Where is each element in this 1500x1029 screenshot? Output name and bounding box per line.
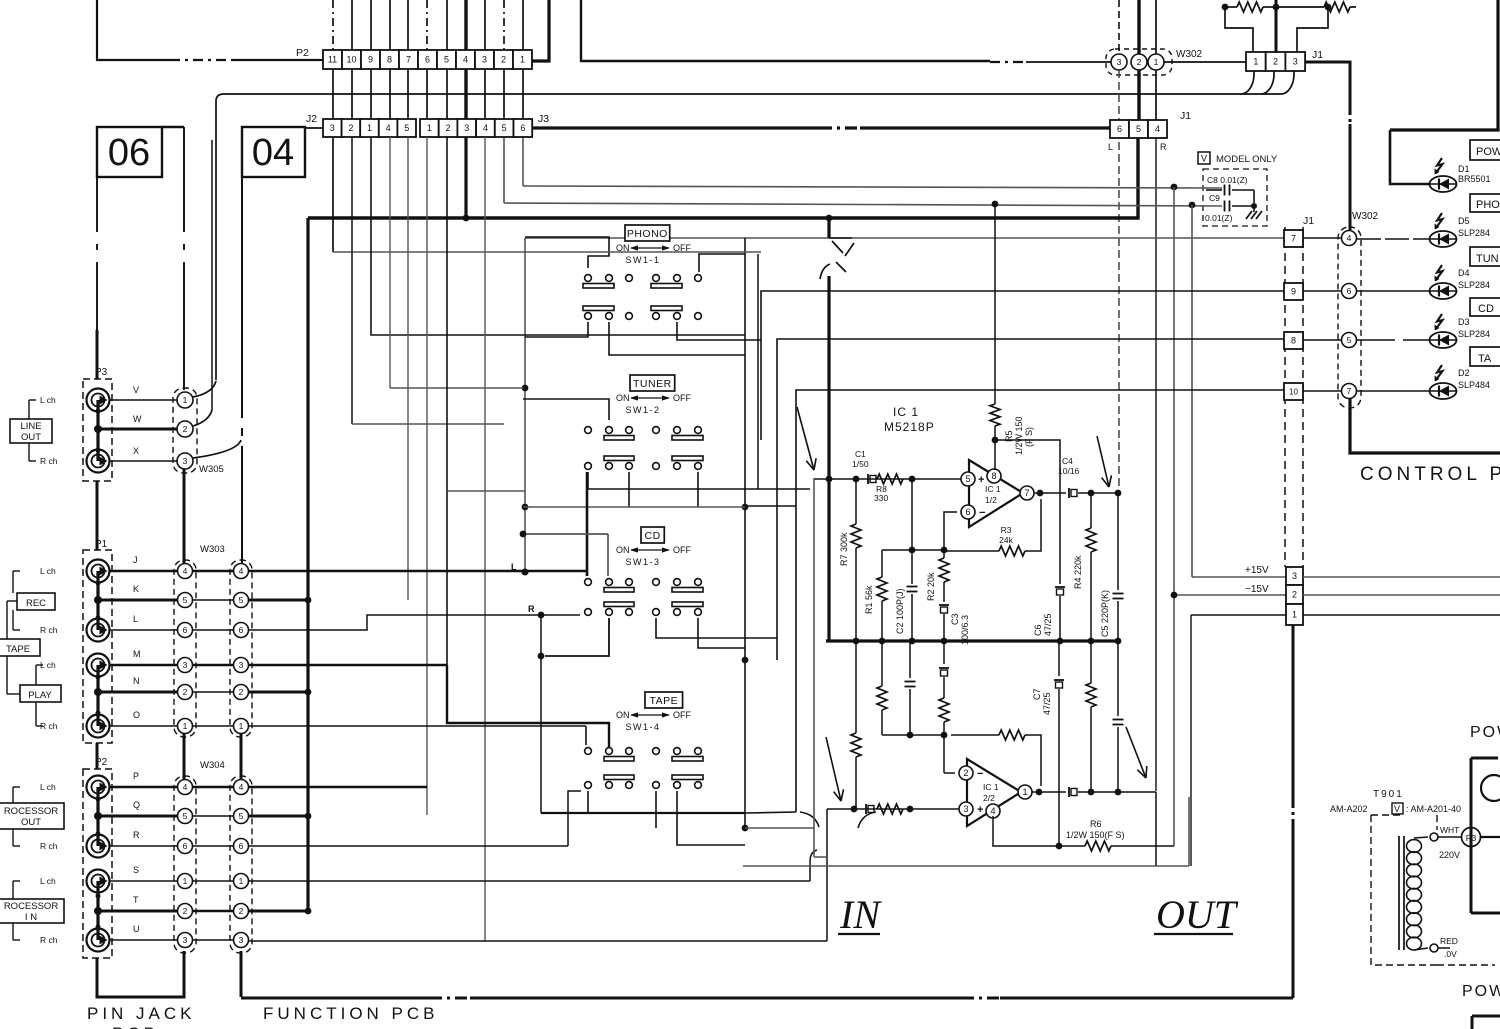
svg-text:C5 220P(K): C5 220P(K)	[1100, 590, 1110, 637]
arrow at C4 output	[1097, 436, 1109, 487]
wire W302-1 down	[1155, 0, 1157, 54]
svg-text:6: 6	[183, 841, 188, 851]
junction dots y218	[463, 215, 470, 222]
svg-text:D4: D4	[1458, 268, 1470, 278]
wire P bold	[249, 786, 427, 789]
connector W302 top dashed outline	[1106, 49, 1172, 75]
svg-text:I N: I N	[25, 912, 37, 923]
svg-text:M: M	[133, 649, 141, 659]
bold stem above P3	[96, 330, 99, 379]
svg-text:V: V	[1394, 804, 1400, 814]
svg-text:J: J	[133, 555, 138, 565]
svg-text:R6: R6	[1090, 819, 1102, 829]
pin jack PROCESSOR OUT Rch	[87, 835, 110, 858]
PIN JACK PCB bottom U	[97, 951, 184, 997]
pin jack PROCESSOR OUT Lch	[87, 776, 110, 799]
resistor R1	[881, 550, 883, 577]
svg-text:L: L	[1108, 142, 1113, 152]
wire TAPE to J1-10 y391	[796, 390, 1284, 812]
SW1-2 lower wires	[588, 472, 810, 489]
svg-text:−: −	[979, 507, 985, 519]
op-amp IC1 1/2 triangle	[969, 460, 1023, 527]
REC label box	[17, 593, 55, 610]
op-amp IC1 2/2	[967, 759, 1021, 826]
wire pin6 to R2 node	[944, 512, 957, 550]
wire U thin	[249, 940, 827, 942]
W304 col1 circles	[178, 780, 193, 795]
svg-text:W304: W304	[200, 760, 225, 771]
curve W305-2 up	[193, 410, 212, 426]
switch SW1-4 row2	[585, 782, 592, 789]
W304 col2 circles	[234, 780, 249, 795]
connector W302-5	[1342, 333, 1357, 348]
svg-text:FUNCTION PCB: FUNCTION PCB	[263, 1004, 439, 1023]
big O in power box	[1481, 775, 1500, 801]
W303 col1 dashed box	[174, 560, 196, 737]
wire O	[249, 725, 586, 727]
switch SW1-2 row1	[585, 427, 592, 434]
wire y506 link	[745, 505, 796, 507]
wires W303 col1-col2	[193, 570, 233, 573]
svg-text:2: 2	[183, 687, 188, 697]
wires J1 to W302 right	[1303, 237, 1341, 239]
wire W302-3 down (dashed)	[1118, 0, 1120, 54]
P2 dashed box lower	[83, 769, 112, 958]
arrow into IC input	[797, 407, 814, 470]
svg-text:OUT: OUT	[21, 817, 41, 828]
svg-text:WHT: WHT	[1440, 825, 1459, 835]
W304 col1 dashed box	[174, 776, 196, 953]
svg-text:1: 1	[239, 876, 244, 886]
svg-text:5: 5	[1347, 335, 1352, 345]
SW1-1 lower wires	[525, 322, 588, 337]
svg-text:2: 2	[239, 687, 244, 697]
svg-text:OFF: OFF	[673, 710, 691, 720]
svg-text:LINE: LINE	[20, 421, 41, 432]
pin jack LINE OUT Rch	[87, 450, 110, 473]
svg-text:3: 3	[183, 456, 188, 466]
svg-text:−15V: −15V	[1245, 584, 1269, 595]
LED D5	[1430, 231, 1457, 247]
svg-text:PLAY: PLAY	[28, 690, 52, 701]
label box CD	[641, 527, 664, 543]
bold rail P1 to P2	[96, 743, 99, 769]
wire row y507	[523, 506, 745, 508]
svg-text:L ch: L ch	[40, 395, 56, 405]
switch SW1-1 row1	[583, 284, 614, 289]
svg-text:1: 1	[1154, 57, 1159, 67]
svg-text:ROCESSOR: ROCESSOR	[4, 806, 59, 817]
svg-text:5: 5	[404, 123, 409, 133]
wire TUNER to J1-9 y291	[761, 291, 1284, 440]
SW1-3 feed wires	[656, 618, 777, 638]
pin jack TAPE PLAY Rch	[87, 715, 110, 738]
rail x184 W303-W304	[183, 734, 186, 787]
svg-text:0.01(Z): 0.01(Z)	[1205, 213, 1233, 223]
label box TUNER right	[1470, 247, 1500, 266]
svg-text:2: 2	[446, 123, 451, 133]
tape bracket link	[6, 601, 8, 639]
svg-text:SW1-3: SW1-3	[625, 557, 660, 567]
svg-text:1/2: 1/2	[985, 495, 997, 505]
svg-text:CD: CD	[645, 530, 661, 542]
svg-text:3: 3	[239, 660, 244, 670]
transformer dashed box	[1371, 815, 1437, 965]
capacitor C4b	[1068, 787, 1070, 797]
svg-text:TUNER: TUNER	[633, 378, 672, 390]
svg-text:1: 1	[1292, 610, 1297, 620]
switch SW1-4 row1	[585, 748, 592, 755]
label box TAPE	[645, 692, 683, 708]
svg-text:R: R	[528, 604, 535, 614]
svg-text:3: 3	[183, 660, 188, 670]
resistor R7b	[855, 641, 857, 733]
wire W302-7 to D2	[1357, 390, 1429, 392]
W303 col2 circles	[234, 564, 249, 579]
svg-text:C4: C4	[1062, 456, 1073, 466]
tape brackets	[12, 571, 14, 593]
label box TUNER	[630, 375, 675, 391]
connector J3 pin header	[420, 119, 439, 137]
svg-text:10: 10	[346, 55, 356, 65]
resistor R6	[1056, 843, 1063, 850]
svg-text:3: 3	[963, 804, 968, 814]
svg-text:OFF: OFF	[673, 545, 691, 555]
curved wires to J1 boxes 1,2,3	[1241, 71, 1254, 94]
resistor R1b	[881, 641, 883, 686]
svg-text:J2: J2	[306, 113, 317, 125]
svg-text:5: 5	[183, 595, 188, 605]
label V MODEL ONLY	[1198, 152, 1210, 164]
wire y550 node	[882, 549, 944, 551]
wire x427 down	[426, 137, 428, 815]
resistor R3b feedback	[951, 734, 999, 736]
svg-text:4: 4	[386, 123, 391, 133]
wire L stepped	[249, 615, 580, 630]
svg-text:R: R	[1160, 142, 1167, 152]
svg-text:9: 9	[1291, 287, 1296, 297]
bold wire J1-1 down	[1292, 625, 1295, 800]
capacitor C5b	[1117, 641, 1119, 716]
W303 col1 circles	[178, 564, 193, 579]
wire 04-box to J2	[305, 127, 323, 129]
svg-text:2: 2	[239, 906, 244, 916]
bold wire J1-3 to W302-4	[1305, 62, 1350, 107]
capacitor C3	[939, 604, 949, 606]
svg-text:W302: W302	[1352, 211, 1379, 222]
svg-text:7: 7	[1347, 386, 1352, 396]
svg-text:4: 4	[483, 123, 488, 133]
svg-text:1/50: 1/50	[852, 459, 869, 469]
svg-text:D2: D2	[1458, 368, 1470, 378]
svg-text:2: 2	[963, 768, 968, 778]
svg-text:2: 2	[1273, 57, 1278, 67]
svg-text:1: 1	[183, 721, 188, 731]
svg-text:R1 56k: R1 56k	[864, 585, 874, 614]
wire y735 node lower	[882, 734, 944, 736]
bold vertical x308	[306, 218, 309, 911]
svg-text:6: 6	[965, 507, 970, 517]
svg-text:SLP284: SLP284	[1458, 228, 1490, 238]
wire P	[109, 786, 177, 789]
bold vertical x829	[827, 218, 830, 238]
SW1-1 feed wires	[525, 237, 609, 268]
top-left PCB box outline	[97, 0, 170, 60]
pin 2	[959, 766, 973, 780]
svg-text:TAPE: TAPE	[6, 644, 30, 655]
04 PCB label box	[242, 127, 305, 177]
svg-text:1/2W 150(F S): 1/2W 150(F S)	[1066, 830, 1125, 840]
svg-text:2/2: 2/2	[983, 793, 995, 803]
connector J1 top header	[1246, 52, 1266, 71]
svg-text:R2 20k: R2 20k	[926, 572, 936, 601]
wire x745 vertical	[744, 238, 746, 828]
label box CD right	[1470, 298, 1500, 316]
wire CD row1 feed	[523, 533, 608, 535]
wire V	[109, 399, 177, 401]
P1 junctions	[96, 571, 99, 630]
wire U	[109, 939, 177, 941]
connector P2 pin header	[323, 50, 342, 69]
bold supply rail y641	[826, 639, 1120, 642]
wire T bold	[249, 910, 308, 913]
TAPE label box	[0, 639, 40, 656]
bold wire center divider	[1275, 0, 1278, 52]
wire corner x525	[524, 238, 526, 572]
svg-text:−: −	[977, 768, 983, 780]
wire IC lower input y809	[827, 808, 959, 810]
wire W302-1 to J1-1	[1164, 61, 1246, 63]
svg-text:R7 300k: R7 300k	[839, 532, 849, 566]
capacitor C6	[1055, 586, 1065, 588]
wire N	[98, 691, 177, 694]
resistor R4b	[1090, 641, 1092, 683]
switch SW1-1 row2	[583, 306, 614, 311]
svg-text:D1: D1	[1458, 164, 1470, 174]
svg-text:5: 5	[183, 811, 188, 821]
wire R5 node to C6	[995, 440, 1060, 584]
pin 3	[959, 802, 973, 816]
svg-text:P1: P1	[95, 539, 108, 550]
wire W302-6 to D4	[1357, 290, 1429, 292]
svg-text:M5218P: M5218P	[884, 420, 935, 434]
wire M bold	[249, 664, 447, 667]
svg-text:OUT: OUT	[1156, 892, 1239, 937]
P3 circle	[1462, 828, 1481, 847]
svg-text:4: 4	[183, 782, 188, 792]
svg-text:4: 4	[990, 806, 995, 816]
svg-text:1: 1	[1022, 787, 1027, 797]
resistor R2	[943, 550, 945, 558]
svg-text:C1: C1	[855, 449, 866, 459]
svg-text:47/25: 47/25	[1043, 613, 1053, 636]
svg-text:2: 2	[501, 55, 506, 65]
wire Q	[98, 815, 177, 818]
wire x408 down	[407, 137, 409, 600]
svg-text:47/25: 47/25	[1042, 692, 1052, 715]
svg-text:J1: J1	[1303, 215, 1314, 227]
wire out2 corner	[1155, 792, 1157, 866]
svg-text:R3: R3	[1001, 525, 1012, 535]
arrow lower input	[826, 737, 841, 801]
PLAY label box	[20, 685, 61, 702]
svg-text:5: 5	[1136, 124, 1141, 134]
svg-text:8: 8	[991, 471, 996, 481]
svg-text:PHO: PHO	[1476, 199, 1500, 211]
svg-text:L ch: L ch	[40, 566, 56, 576]
svg-text:220V: 220V	[1439, 850, 1460, 860]
power box right	[1471, 757, 1498, 760]
PROCESSOR IN label box	[0, 899, 64, 923]
vertical x827 from U to input	[826, 809, 828, 941]
pin jack PROCESSOR IN Rch	[87, 929, 110, 952]
svg-text:5: 5	[965, 474, 970, 484]
svg-text:TAPE: TAPE	[649, 695, 678, 707]
wire R thin	[249, 845, 568, 847]
arrow lower output	[1126, 727, 1146, 778]
svg-text:1: 1	[183, 395, 188, 405]
svg-text:6: 6	[1117, 124, 1122, 134]
svg-text:24k: 24k	[999, 535, 1013, 545]
wire IC input y479	[814, 478, 961, 480]
svg-text:+: +	[977, 804, 983, 816]
wire R	[109, 845, 177, 847]
svg-text:2: 2	[1292, 590, 1297, 600]
wire y828 gray	[745, 827, 814, 829]
svg-text:11: 11	[328, 55, 337, 65]
svg-text:1: 1	[520, 55, 525, 65]
svg-text:C9: C9	[1209, 193, 1220, 203]
svg-text:06: 06	[108, 132, 150, 174]
svg-text:10/16: 10/16	[1058, 466, 1080, 476]
svg-text:4: 4	[239, 566, 244, 576]
svg-text:L ch: L ch	[40, 782, 56, 792]
connector J1-9	[1284, 283, 1303, 300]
wire output to C5	[1078, 492, 1118, 494]
ground	[1251, 203, 1257, 209]
capacitor C3b	[943, 641, 945, 664]
svg-text:J1: J1	[1180, 110, 1191, 122]
pin 8	[987, 469, 1001, 483]
svg-text:O: O	[133, 710, 140, 720]
svg-text:S: S	[133, 865, 139, 875]
svg-text:K: K	[133, 584, 139, 594]
svg-text:330: 330	[874, 493, 888, 503]
resistor R901	[1225, 6, 1237, 8]
wire x371 corner y335	[371, 137, 745, 335]
vertical dash P3 down	[1470, 847, 1472, 913]
bold wire from P2 pin1 up	[532, 0, 549, 61]
bold vertical x587	[586, 472, 589, 576]
wires power to right edge	[1303, 576, 1500, 578]
svg-text:X: X	[133, 446, 139, 456]
wire -15V feed y185	[523, 186, 1222, 188]
label box PHONO right	[1470, 194, 1500, 212]
svg-text:SLP484: SLP484	[1458, 380, 1490, 390]
svg-text:2: 2	[183, 906, 188, 916]
svg-text:P2: P2	[296, 47, 309, 59]
wire IC1 output	[1034, 492, 1066, 494]
svg-text:9: 9	[368, 55, 373, 65]
switch SW1-3 row1	[585, 579, 592, 586]
label box POWER	[1470, 140, 1500, 160]
left rail x97	[96, 177, 98, 232]
svg-text:TUN: TUN	[1476, 253, 1499, 265]
gray box border right	[1188, 797, 1190, 866]
label box TAPE right	[1470, 347, 1500, 366]
svg-text:+15V: +15V	[1245, 565, 1269, 576]
capacitor C5	[1117, 493, 1119, 590]
connector W305 dashed box	[173, 388, 197, 473]
resistor R7	[855, 479, 857, 524]
pin jack TAPE REC Lch	[87, 560, 110, 583]
pin 7	[1020, 486, 1034, 500]
svg-text:PHONO: PHONO	[627, 228, 668, 240]
wire M	[109, 664, 177, 667]
svg-text:C6: C6	[1033, 624, 1043, 636]
wire Q bold	[249, 815, 308, 818]
svg-text:V: V	[133, 385, 139, 395]
svg-text:R ch: R ch	[40, 456, 58, 466]
svg-text:OFF: OFF	[673, 393, 691, 403]
wire x758	[757, 254, 759, 489]
resistor R8b	[877, 804, 903, 814]
PROCESSOR OUT label box	[0, 803, 64, 829]
svg-text:1: 1	[183, 876, 188, 886]
svg-text:3: 3	[330, 123, 335, 133]
rail x242 down	[241, 177, 243, 418]
coil top wire	[1414, 837, 1428, 838]
svg-text:3: 3	[183, 935, 188, 945]
svg-text:C8 0.01(Z): C8 0.01(Z)	[1207, 175, 1248, 185]
wire S	[109, 880, 177, 882]
svg-text:1: 1	[427, 123, 432, 133]
svg-text:POW: POW	[1462, 983, 1500, 1000]
pin 4	[986, 804, 1000, 818]
gray vertical from J3-5	[503, 138, 505, 203]
svg-text:3: 3	[482, 55, 487, 65]
svg-text:R4 220k: R4 220k	[1073, 555, 1083, 589]
switch SW1-3 row2	[585, 609, 592, 616]
connector W302-4	[1342, 231, 1357, 246]
wire IC2 output	[1032, 791, 1066, 793]
svg-text:6: 6	[425, 55, 430, 65]
svg-text:4: 4	[1347, 233, 1352, 243]
bold wire J3-3 stub	[464, 137, 467, 218]
svg-text:3: 3	[1292, 571, 1297, 581]
bold rail P3 to P1	[96, 481, 99, 550]
LINE OUT bracket	[28, 400, 30, 419]
wire RED right	[1438, 947, 1450, 949]
resistor R8	[877, 474, 903, 484]
rail x241 between cols	[240, 734, 243, 787]
wire +15V	[1192, 576, 1286, 578]
svg-text:W305: W305	[199, 464, 224, 475]
pin jack LINE OUT Lch	[87, 389, 110, 412]
svg-text:1: 1	[1253, 57, 1258, 67]
resistor R4	[1090, 493, 1092, 528]
transformer dashed top	[1371, 814, 1404, 816]
svg-text:N: N	[133, 676, 140, 686]
svg-text:P: P	[133, 771, 139, 781]
svg-text:5: 5	[502, 123, 507, 133]
curve W305-1 up	[193, 381, 216, 397]
wire output2 right	[1078, 791, 1156, 793]
svg-text:7: 7	[1291, 234, 1296, 244]
svg-text:MODEL ONLY: MODEL ONLY	[1216, 154, 1278, 165]
svg-text:TA: TA	[1478, 353, 1492, 365]
wires P2 to J2/J3	[332, 69, 334, 119]
